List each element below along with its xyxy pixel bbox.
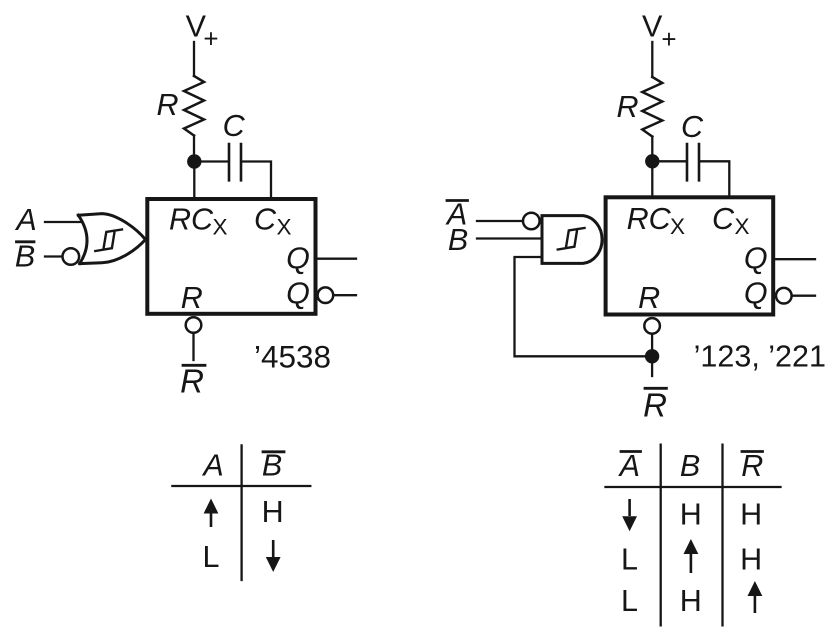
- node junction dot (left): [187, 154, 201, 168]
- svg-text:RC: RC: [627, 202, 672, 236]
- svg-text:+: +: [203, 24, 218, 54]
- svg-text:H: H: [680, 584, 702, 618]
- pin label RCx (right): [627, 202, 685, 239]
- right table header B: [680, 449, 700, 483]
- bubble on R input (right): [644, 318, 660, 334]
- up arrow row1 col A (left table): [204, 499, 219, 528]
- wire resistor to node (right): [651, 137, 653, 162]
- down arrow row2 col Bbar (left table): [266, 540, 281, 572]
- pin label Qbar (right): [744, 277, 768, 311]
- wire resistor to node (left): [193, 136, 195, 162]
- svg-text:R: R: [156, 88, 178, 122]
- svg-text:B: B: [448, 223, 468, 257]
- label Bbar input (left): [15, 239, 35, 273]
- overline of table header Abar: [621, 450, 641, 453]
- hysteresis symbol (right gate): [558, 228, 585, 250]
- hysteresis symbol (left gate): [95, 230, 122, 252]
- svg-text:X: X: [276, 215, 291, 240]
- svg-text:Q: Q: [286, 277, 310, 311]
- left table header A: [201, 448, 223, 482]
- overline of Bbar (left): [17, 240, 35, 243]
- node junction dot on Rbar net (right): [645, 349, 659, 363]
- node V+ label (left): [186, 9, 219, 53]
- label C (left capacitor): [223, 109, 246, 143]
- L row3 col Abar (right table): [621, 584, 638, 618]
- node V+ label (right): [642, 10, 677, 54]
- left table vertical rule: [240, 445, 242, 580]
- label Rbar (right): [643, 387, 667, 424]
- wire input Abar (right): [477, 220, 523, 222]
- wire R input (left): [192, 333, 194, 360]
- pin label RCx (left): [169, 203, 228, 240]
- label R (left resistor): [156, 88, 178, 122]
- svg-text:H: H: [262, 495, 284, 529]
- label C (right capacitor): [681, 110, 704, 144]
- capacitor C (right): [687, 144, 699, 180]
- label Abar input (right): [445, 198, 467, 232]
- H row1 col Bbar (left table): [262, 495, 284, 529]
- wire gate third input to Rbar node (right): [515, 257, 653, 356]
- overline of Rbar (left): [183, 364, 205, 367]
- svg-text:A: A: [618, 449, 640, 483]
- wire node to capacitor (right): [652, 160, 686, 162]
- wire V+ to resistor (right): [651, 42, 653, 77]
- label B input (right): [448, 223, 468, 257]
- svg-text:R: R: [741, 449, 763, 483]
- svg-text:B: B: [15, 239, 35, 273]
- node junction dot (right): [645, 154, 659, 168]
- wire input B (right): [477, 237, 542, 239]
- svg-text:R: R: [616, 90, 638, 124]
- svg-text:A: A: [201, 448, 223, 482]
- down arrow row1 col Abar (right table): [622, 499, 637, 531]
- wire node to RCx pin (left): [193, 162, 195, 200]
- up arrow row2 col B (right table): [684, 539, 699, 573]
- wire input A (left): [45, 221, 82, 223]
- wire input B (left): [45, 255, 62, 257]
- L row2 col Abar (right table): [621, 543, 638, 577]
- svg-text:V: V: [642, 10, 663, 44]
- wire output Q (right): [773, 258, 815, 260]
- bubble on Qbar output (right): [776, 288, 792, 304]
- bubble on Qbar output (left): [318, 287, 334, 303]
- svg-text:H: H: [740, 498, 762, 532]
- svg-text:B: B: [262, 448, 282, 482]
- right table vertical rule 2: [721, 445, 723, 626]
- bubble on Abar input of gate (right): [523, 213, 540, 230]
- svg-text:’4538: ’4538: [254, 338, 331, 374]
- L row2 col A (left table): [203, 540, 220, 574]
- wire node to RCx pin (right): [651, 161, 653, 197]
- pin label Qbar (left): [286, 277, 310, 311]
- svg-text:Q: Q: [744, 242, 768, 276]
- svg-text:X: X: [212, 215, 227, 240]
- pin label Q (left): [286, 242, 310, 276]
- svg-text:X: X: [670, 214, 685, 239]
- wire capacitor to Cx pin (right): [700, 161, 729, 197]
- svg-text:R: R: [643, 387, 667, 424]
- wire V+ to resistor (left): [193, 42, 195, 76]
- svg-text:C: C: [681, 110, 704, 144]
- right table horizontal rule: [606, 486, 781, 488]
- svg-text:’123, ’221: ’123, ’221: [694, 339, 826, 373]
- wire capacitor to Cx pin (left): [242, 162, 271, 200]
- right table vertical rule 1: [660, 445, 662, 626]
- svg-text:R: R: [180, 363, 204, 400]
- IC box (right, '123/'221): [606, 197, 774, 314]
- H row1 col Rbar (right table): [740, 498, 762, 532]
- pin label Cx (left): [254, 203, 292, 240]
- H row2 col Rbar (right table): [740, 543, 762, 577]
- svg-text:L: L: [621, 543, 638, 577]
- overline of table header Rbar: [742, 450, 763, 453]
- pin label R (left box): [181, 281, 203, 315]
- left table header Bbar: [262, 448, 282, 482]
- label A input (left): [14, 203, 36, 237]
- pin label R (right box): [638, 281, 660, 315]
- right table header Rbar: [741, 449, 763, 483]
- pin label Cx (right): [712, 202, 750, 239]
- bubble on R input (left): [186, 317, 202, 333]
- svg-text:C: C: [254, 203, 277, 237]
- pin label Q (right): [744, 242, 768, 276]
- svg-text:L: L: [203, 540, 220, 574]
- H row3 col B (right table): [680, 584, 702, 618]
- svg-text:B: B: [680, 449, 700, 483]
- AND gate U2 (Schmitt trigger): [542, 216, 602, 264]
- bubble on B input of gate (left): [63, 248, 80, 265]
- svg-text:R: R: [181, 281, 203, 315]
- svg-text:R: R: [638, 281, 660, 315]
- svg-text:X: X: [734, 214, 749, 239]
- wire node to Rbar stub (right): [651, 356, 653, 376]
- svg-text:C: C: [712, 202, 735, 236]
- capacitor C (left): [229, 144, 241, 180]
- wire output Qbar (right): [792, 295, 815, 297]
- overline of Abar (right): [447, 199, 468, 202]
- resistor R (right): [642, 77, 662, 137]
- svg-text:A: A: [14, 203, 36, 237]
- resistor R (left): [184, 76, 204, 136]
- label '4538: [254, 338, 331, 374]
- wire output Q (left): [316, 258, 357, 260]
- svg-text:Q: Q: [744, 277, 768, 311]
- label R (right resistor): [616, 90, 638, 124]
- H row1 col B (right table): [680, 498, 702, 532]
- right table header Abar: [618, 449, 640, 483]
- label Rbar (left): [180, 363, 204, 400]
- svg-text:L: L: [621, 584, 638, 618]
- overline of Rbar (right): [645, 387, 666, 390]
- overline of table header Bbar: [263, 450, 284, 453]
- wire R bubble to node (right): [651, 334, 653, 357]
- svg-text:Q: Q: [286, 242, 310, 276]
- svg-text:H: H: [740, 543, 762, 577]
- svg-text:H: H: [680, 498, 702, 532]
- svg-text:RC: RC: [169, 203, 214, 237]
- wire output Qbar (left): [333, 294, 356, 296]
- label '123, '221: [694, 339, 826, 373]
- IC box (left, '4538): [147, 199, 315, 314]
- OR gate U1 (Schmitt trigger): [78, 214, 145, 264]
- svg-text:C: C: [223, 109, 246, 143]
- left table horizontal rule: [172, 485, 310, 487]
- svg-text:+: +: [661, 24, 676, 54]
- wire node to capacitor (left): [194, 160, 228, 162]
- up arrow row3 col Rbar (right table): [748, 581, 763, 613]
